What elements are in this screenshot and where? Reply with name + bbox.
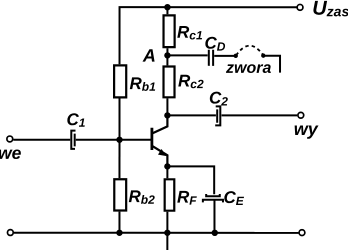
svg-text:C2: C2 bbox=[209, 89, 228, 109]
wire Rc2 bottom to collector node bbox=[166, 98, 168, 115]
transistor Q1 base bar bbox=[150, 128, 153, 150]
svg-text:Uzas: Uzas bbox=[312, 0, 348, 20]
wire left branch Rb1 to Rb2 to bottom rail bbox=[118, 98, 120, 178]
capacitor CE bbox=[203, 194, 223, 202]
terminal bottom right bbox=[299, 230, 305, 236]
node junction dot top rail / Rc1 bbox=[164, 4, 170, 10]
node rail dot RF bbox=[164, 230, 170, 236]
node A junction dot bbox=[164, 52, 170, 58]
node emitter junction dot bbox=[164, 163, 170, 169]
wire Rc1 branch top bbox=[166, 7, 168, 14]
wire bottom stub below rail bbox=[166, 233, 168, 250]
svg-text:CE: CE bbox=[223, 188, 244, 208]
transistor Q1 emitter lead bbox=[153, 146, 168, 166]
resistor Rc2 bbox=[164, 66, 175, 97]
zwora left dot bbox=[234, 54, 238, 58]
wire node A to CD bbox=[167, 54, 207, 56]
wire collector node to C2 bbox=[167, 114, 215, 116]
transistor Q1 collector lead bbox=[153, 115, 168, 133]
wire C2 to output wy bbox=[222, 114, 298, 116]
wire RF bottom to rail bbox=[166, 212, 168, 233]
wire C1 to base bbox=[76, 139, 151, 141]
capacitor C2 bbox=[215, 106, 220, 125]
wire zwora right terminal hook bbox=[263, 56, 280, 73]
terminal input we bbox=[7, 136, 13, 142]
wire CE bottom to rail bbox=[213, 200, 215, 233]
svg-text:C1: C1 bbox=[66, 110, 85, 130]
node rail dot Rb2 bbox=[116, 230, 122, 236]
svg-text:A: A bbox=[142, 46, 156, 66]
svg-text:Rb2: Rb2 bbox=[128, 187, 155, 207]
capacitor CD bbox=[209, 50, 213, 66]
node rail dot CE bbox=[212, 230, 218, 236]
wire emitter node down to RF bbox=[166, 166, 168, 178]
node base / Rb junction dot bbox=[116, 137, 122, 143]
svg-text:Rc1: Rc1 bbox=[177, 23, 203, 43]
wire Rb2 bottom to rail bbox=[118, 212, 120, 233]
capacitor C1 bbox=[71, 131, 75, 149]
svg-text:Rc2: Rc2 bbox=[178, 72, 204, 92]
zwora right dot bbox=[261, 53, 265, 57]
resistor RF bbox=[165, 179, 175, 210]
svg-text:CD: CD bbox=[205, 34, 226, 54]
wire Rc1 bottom to node A bbox=[166, 48, 168, 65]
svg-text:zwora: zwora bbox=[225, 60, 271, 77]
terminal Uzas bbox=[297, 4, 303, 10]
wire input we to C1 bbox=[13, 139, 70, 141]
svg-text:wy: wy bbox=[294, 119, 319, 139]
resistor Rc1 bbox=[164, 15, 175, 47]
node collector junction dot bbox=[164, 112, 170, 118]
wire CD to zwora left terminal bbox=[214, 55, 236, 57]
svg-text:we: we bbox=[0, 143, 22, 163]
wire bottom rail bbox=[14, 232, 299, 234]
terminal wy bbox=[298, 112, 304, 118]
svg-text:RF: RF bbox=[177, 188, 197, 208]
wire top supply rail bbox=[120, 7, 297, 64]
terminal bottom left bbox=[7, 230, 13, 236]
resistor Rb1 bbox=[114, 65, 126, 97]
resistor Rb2 bbox=[114, 179, 126, 210]
svg-text:Rb1: Rb1 bbox=[130, 74, 157, 94]
transistor Q1 emitter arrow bbox=[158, 149, 167, 156]
zwora jumper dashed arc bbox=[236, 46, 263, 56]
wire emitter node to CE branch corner bbox=[167, 166, 214, 194]
